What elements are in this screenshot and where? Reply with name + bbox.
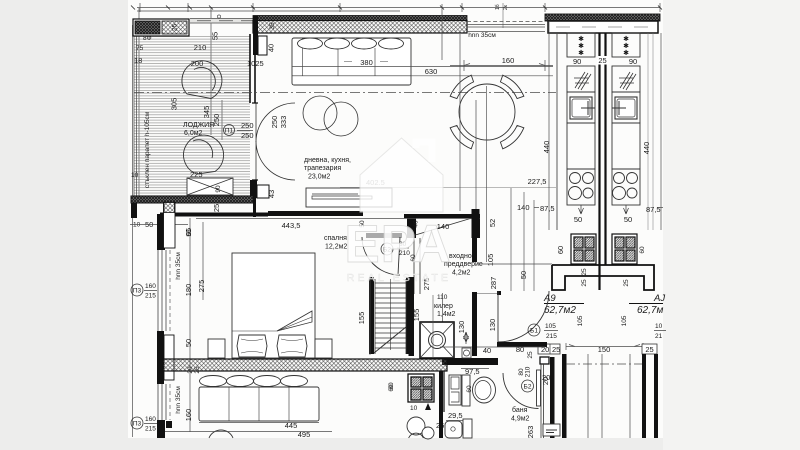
bed [232,253,315,358]
svg-text:hnn 35см: hnn 35см [175,386,182,414]
svg-text:ЕРА: ЕРА [344,215,451,274]
svg-text:25: 25 [581,279,588,287]
checkered pier block (over window box top) [164,203,175,213]
svg-text:105: 105 [486,254,495,267]
svg-text:105: 105 [545,323,556,330]
svg-text:50: 50 [574,215,582,224]
svg-text:hnn 35см: hnn 35см [468,32,496,39]
svg-text:20: 20 [542,373,550,382]
svg-text:29,5: 29,5 [448,411,463,420]
dishwasher hatch marks [574,72,636,90]
bathroom door [537,370,541,406]
svg-text:25: 25 [527,351,534,359]
loggia floor hatch [134,36,250,196]
door tag B1 [528,324,540,336]
toilet [462,375,470,406]
lintel white bar below W3 [548,21,658,33]
left dimension chain verticals [133,8,223,437]
step wall at x253 [253,187,256,217]
pendant circles [303,96,358,136]
door labels near bedroom door [381,243,393,255]
svg-text:50: 50 [519,271,528,279]
svg-text:килер: килер [434,303,453,310]
right light gray margin [663,0,800,450]
bathroom north wall [497,342,547,347]
svg-text:130: 130 [488,319,497,332]
washer stacks right [612,234,637,264]
svg-text:160: 160 [184,409,193,422]
svg-text:87,5: 87,5 [646,205,661,214]
svg-text:стъклен парапет h-105см: стъклен парапет h-105см [144,111,151,188]
svg-text:25: 25 [212,204,221,212]
svg-text:50: 50 [624,215,632,224]
window tag P1 250/250 [224,125,235,136]
left outer wall corner below [131,203,137,218]
west wall [472,292,477,356]
svg-text:275: 275 [197,280,206,293]
svg-text:630: 630 [425,67,438,76]
killer west wall (hall wall lower) [409,277,415,356]
svg-text:495: 495 [298,430,311,439]
appliance stack right of wall [449,375,461,405]
cooktop left [569,173,594,200]
svg-text:62,7м2: 62,7м2 [544,305,576,316]
wall segment left [268,211,363,216]
svg-text:333: 333 [279,116,288,129]
svg-text:62,7м: 62,7м [637,305,663,316]
dim line through wall [441,4,443,60]
svg-text:ЛОДЖИЯ: ЛОДЖИЯ [183,122,214,129]
svg-text:баня: баня [512,406,528,414]
strip outer boundary thin lines [557,33,661,230]
svg-text:250: 250 [270,116,279,129]
svg-text:23,0м2: 23,0м2 [308,174,330,181]
wall: block under balcony door [250,180,257,198]
wall W1 top-left loggia block [133,19,189,36]
loggia glass parapet top edge [190,18,253,24]
svg-text:155: 155 [412,309,421,322]
svg-text:✱: ✱ [623,35,629,43]
corridor vertical walls [562,354,567,438]
svg-text:440: 440 [542,141,551,154]
svg-text:АJ: АJ [653,293,665,304]
svg-text:✱: ✱ [578,35,584,43]
svg-text:105: 105 [621,315,628,326]
dim 443,5 [196,218,480,220]
svg-text:✱: ✱ [623,49,629,57]
wall W2 top living room wall: dark insulation band + hatch [253,16,467,21]
svg-text:60: 60 [388,384,395,392]
hall west wall thin [414,238,420,294]
bedroom door arc [362,237,400,275]
svg-text:25: 25 [598,56,606,65]
corridor north edge line [477,263,552,265]
blanket fold [277,311,312,331]
svg-text:210: 210 [525,366,532,377]
window tag P3 lower [131,417,143,429]
bath east wall white jamb [540,357,549,364]
window (triple line) upper [158,250,170,331]
svg-text:160: 160 [145,416,156,423]
stair shaft side walls [369,277,374,354]
svg-text:25: 25 [172,24,179,32]
svg-text:60: 60 [556,246,565,254]
svg-text:П3: П3 [133,421,142,428]
svg-text:43: 43 [267,190,276,198]
svg-text:155: 155 [357,312,366,325]
svg-text:250: 250 [212,114,221,127]
west wall pier top [157,214,165,250]
right kitchen strip outline [612,33,640,205]
svg-text:215: 215 [546,333,557,340]
loggia glass parapet (left) [134,36,137,196]
svg-text:2к: 2к [503,4,509,10]
svg-text:1025: 1025 [247,59,264,68]
svg-text:Б1: Б1 [530,328,538,335]
svg-text:40: 40 [483,346,491,355]
sink left [570,97,592,119]
corridor dim 150 [566,343,643,350]
balcony double door arcs [252,103,295,180]
dim 440 right of living [549,21,557,230]
svg-text:✱: ✱ [578,42,584,50]
hall east wall [472,209,480,238]
wall W5 loggia bottom wall band [131,196,253,203]
svg-text:80: 80 [516,345,524,354]
entrance door arc [498,291,549,342]
wall between nook and bath [439,371,443,438]
washer stacks 2x2 checkered left [571,234,596,264]
svg-text:Б2: Б2 [524,384,532,391]
pillows [237,335,307,357]
svg-text:160: 160 [502,56,515,65]
svg-text:105: 105 [577,315,584,326]
svg-text:227,5: 227,5 [528,177,547,186]
loggia right wall + step [250,34,255,103]
sink right [615,97,637,119]
dims 445 495 [199,422,319,424]
white jamb box + 43 label [257,185,269,198]
svg-text:П3: П3 [133,288,142,295]
checkered appliance 2x2 [408,374,434,402]
PI corridor wall [552,265,654,290]
entry sliding door diagonal [412,218,472,236]
top dimension line row [131,3,662,12]
svg-text:4,2м2: 4,2м2 [452,270,471,277]
svg-text:П1: П1 [225,128,234,135]
left kitchen strip outline [567,33,595,205]
svg-text:150: 150 [598,345,611,354]
svg-text:90: 90 [629,57,637,66]
svg-text:287: 287 [489,277,498,290]
svg-text:160: 160 [145,283,156,290]
svg-text:65: 65 [184,228,193,236]
terrace window gap lines (x462-545) [467,3,545,32]
svg-text:hnn 35см: hnn 35см [175,252,182,280]
svg-text:18: 18 [134,56,142,65]
west wall bottom corner [157,420,165,438]
svg-text:443,5: 443,5 [282,221,301,230]
svg-text:52: 52 [488,219,497,227]
svg-text:21: 21 [655,333,663,340]
svg-text:10: 10 [410,405,418,412]
svg-text:250: 250 [241,121,254,130]
svg-text:4,9м2: 4,9м2 [511,416,530,423]
svg-text:✱: ✱ [623,42,629,50]
svg-text:445: 445 [285,421,298,430]
bedroom door: wall stub gray (watermark washed) [366,233,402,238]
cooktop right [613,173,638,200]
shaft with X [420,322,454,358]
svg-text:А9: А9 [543,293,556,304]
svg-text:1б: 1б [495,4,501,10]
siphon box [462,348,471,358]
svg-text:REAL ESTATE: REAL ESTATE [347,272,451,284]
nightstand right [315,339,332,358]
svg-text:250: 250 [241,131,254,140]
svg-text:305: 305 [170,98,179,111]
svg-text:60: 60 [639,246,646,254]
svg-text:10: 10 [131,172,139,179]
svg-text:40: 40 [267,44,276,52]
svg-text:8Ф: 8Ф [143,35,152,42]
svg-text:55: 55 [211,32,220,40]
svg-text:10: 10 [133,222,141,229]
loggia armchair 1 [182,61,222,99]
svg-text:1,4м2: 1,4м2 [437,311,456,318]
svg-text:130: 130 [457,321,466,334]
fridge snowflake marks left [578,35,629,57]
svg-text:6,0м2: 6,0м2 [184,130,203,137]
svg-text:25: 25 [581,268,588,276]
loggia bench with X [187,178,233,195]
corridor dim row [440,346,545,348]
svg-text:✱: ✱ [578,49,584,57]
svg-text:440: 440 [642,142,651,155]
party wall between A9 and neighbor [600,33,606,290]
svg-text:35: 35 [269,22,276,30]
svg-text:215: 215 [145,426,156,433]
hall dim verticals [487,86,535,291]
checkered pier below loggia wall [164,203,174,213]
svg-text:180: 180 [184,284,193,297]
svg-text:380: 380 [360,58,373,67]
svg-text:90: 90 [215,185,222,193]
svg-text:25: 25 [645,345,653,354]
corridor wall stub [497,291,501,295]
wall W3 top-right band over kitchen [545,14,660,21]
svg-text:трапезария: трапезария [304,165,341,172]
partial table arc at sheet edge [209,430,233,438]
white drawing sheet [128,0,666,438]
svg-text:345: 345 [202,106,211,119]
svg-text:25: 25 [623,279,630,287]
sofa top [292,38,411,85]
svg-text:87,5: 87,5 [540,204,555,213]
svg-text:75: 75 [136,45,144,52]
svg-text:10: 10 [655,323,663,330]
nightstand left [208,339,225,358]
svg-text:дневна, кухня,: дневна, кухня, [304,157,351,164]
west wall pier middle [157,331,164,384]
TV cabinet [306,188,392,207]
svg-text:215: 215 [145,293,156,300]
dining table + chairs [430,55,543,168]
loggia dash-dot centerline [134,92,556,94]
svg-text:263: 263 [526,426,535,439]
svg-text:225: 225 [190,170,203,179]
sink circles [407,417,425,435]
loggia armchair 2 [184,135,224,174]
svg-text:140: 140 [517,203,530,212]
wall segment: hall north [404,214,480,218]
window tag P3 upper [131,284,143,296]
svg-text:входно: входно [449,253,472,260]
svg-text:210: 210 [194,43,207,52]
svg-text:25: 25 [552,345,560,354]
window lower [158,384,170,420]
svg-text:90: 90 [573,57,581,66]
svg-text:60: 60 [466,385,473,393]
svg-text:50: 50 [184,339,193,347]
svg-text:200: 200 [191,59,204,68]
